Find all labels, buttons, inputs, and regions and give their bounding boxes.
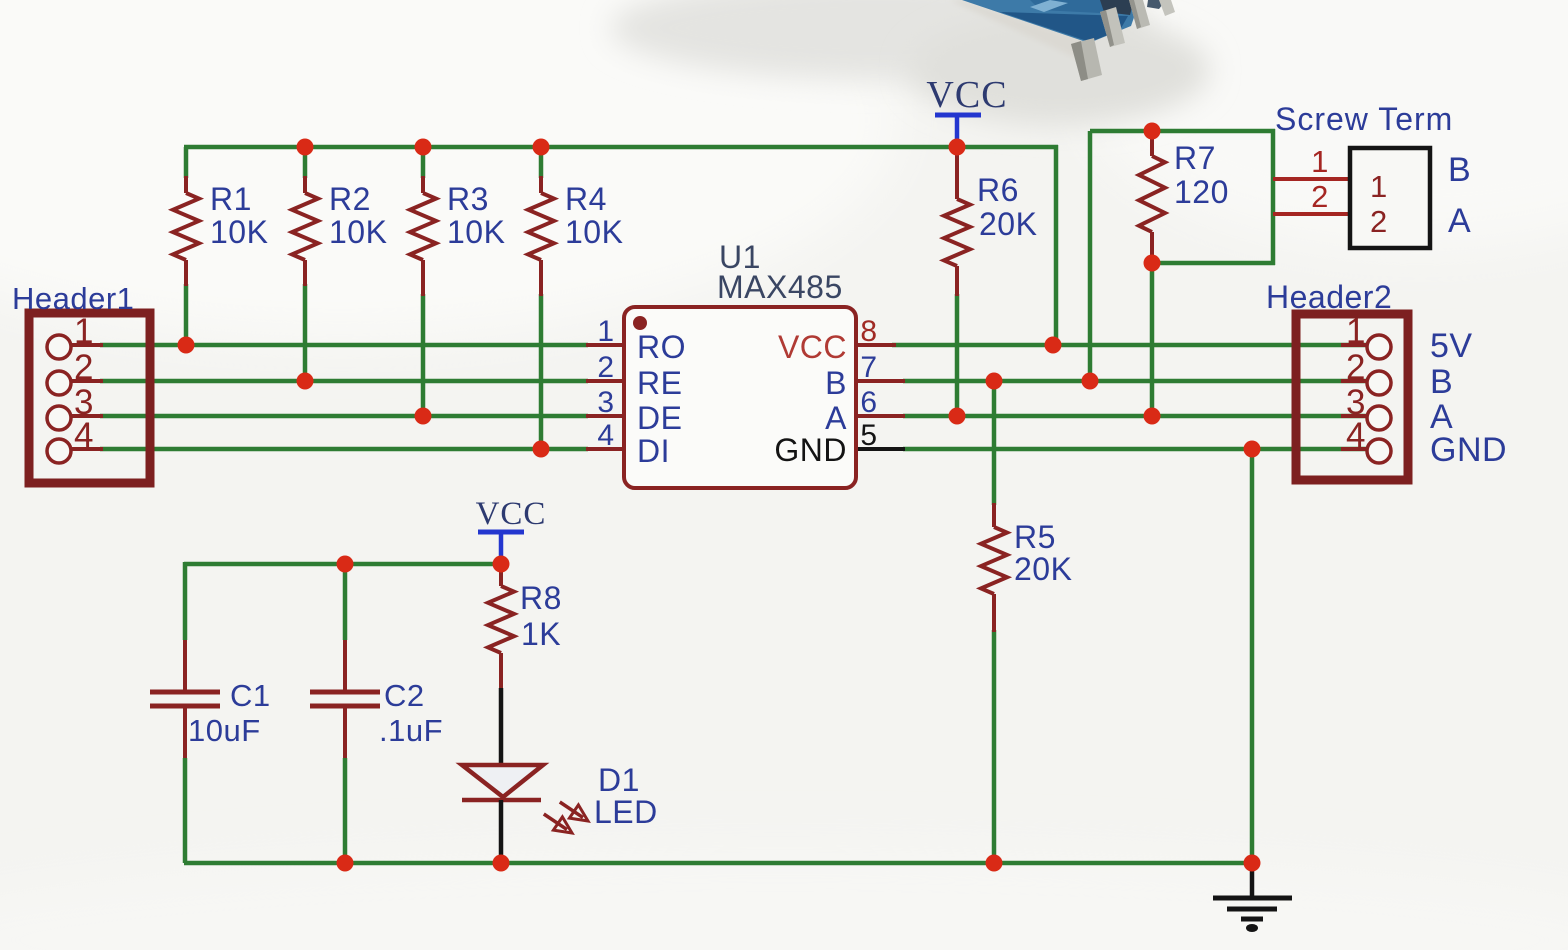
svg-text:2: 2	[1311, 179, 1329, 214]
svg-text:1: 1	[1370, 169, 1388, 204]
screw terminal inside pin number 1	[1370, 169, 1388, 204]
U1 pin 6 name A	[825, 400, 847, 436]
svg-text:R6: R6	[977, 172, 1019, 208]
U1 pin number 4	[597, 419, 614, 452]
label R7 value	[1174, 140, 1229, 210]
junction node J3 at (541,147)	[533, 139, 550, 156]
junction node J16 at (1252,449)	[1244, 441, 1261, 458]
U1 pin number 3	[597, 386, 614, 419]
capacitor C2	[310, 640, 380, 758]
wire: U1 pin8 to Header2 pin1 (5V net)	[892, 343, 1367, 348]
svg-text:DI: DI	[637, 433, 670, 469]
wire: R3 branch vertical	[421, 147, 426, 416]
label B (Header2)	[1430, 363, 1453, 401]
svg-text:10K: 10K	[329, 214, 387, 250]
wire: Header1 pin1 stub	[71, 343, 103, 347]
svg-text:1K: 1K	[521, 616, 561, 652]
svg-text:R3: R3	[447, 181, 489, 217]
Header2 pin numbers 1-4	[1346, 312, 1366, 455]
label U1	[719, 239, 761, 275]
svg-text:D1: D1	[598, 762, 640, 798]
wire: U1 pin3 stub	[586, 414, 624, 418]
junction node J1 at (305,147)	[297, 139, 314, 156]
connector Header2	[1296, 314, 1408, 480]
svg-text:4: 4	[1346, 416, 1366, 455]
wire: bottom ground rail	[184, 861, 1254, 866]
junction node J10 at (994,381)	[986, 373, 1003, 390]
label C2 value	[379, 678, 443, 748]
svg-text:.1uF: .1uF	[379, 713, 443, 748]
resistor R8	[488, 566, 514, 690]
svg-text:C1: C1	[230, 678, 271, 713]
wire: drop from top rail to U1 pin 8 net	[1054, 145, 1059, 345]
capacitor C1	[150, 640, 220, 758]
U1 pin number 6	[860, 386, 877, 419]
svg-text:1: 1	[74, 312, 94, 351]
wire: LED cathode to ground rail (black)	[499, 800, 504, 863]
op-amp U1 MAX485 body	[624, 307, 856, 488]
wire: U1 pin6 to Header2 pin3 (A net)	[903, 414, 1367, 419]
svg-text:7: 7	[860, 351, 877, 384]
U1 pin 3 name DE	[637, 400, 682, 436]
wire: U1 pin7 stub	[856, 379, 905, 383]
U1 pin 1 name RO	[637, 329, 686, 365]
svg-text:MAX485: MAX485	[717, 269, 843, 305]
wire: U1 pin5 to Header2 pin4 (GND net)	[903, 447, 1367, 452]
ground symbol	[1213, 863, 1292, 932]
label VCC (top)	[926, 74, 1007, 116]
svg-text:B: B	[1430, 363, 1453, 401]
wire: Header1 pin1 to U1 RO	[100, 343, 588, 348]
svg-text:6: 6	[860, 386, 877, 419]
svg-text:VCC: VCC	[778, 329, 847, 365]
svg-text:4: 4	[74, 416, 94, 455]
junction node J9 at (1053,345)	[1045, 337, 1062, 354]
U1 pin 8 name VCC	[778, 329, 847, 365]
wire: screw terminal pin1 lead	[1273, 177, 1350, 181]
label MAX485	[717, 269, 843, 305]
connector Header1	[29, 313, 150, 483]
label Screw Term	[1275, 101, 1453, 137]
junction node J2 at (423,147)	[415, 139, 432, 156]
power symbol VCC (bottom)	[478, 532, 524, 564]
svg-text:1: 1	[1346, 312, 1366, 351]
wire: R8 to LED (black)	[499, 688, 504, 765]
resistor R1	[173, 176, 199, 286]
wire: screw terminal pin2 lead	[1273, 212, 1350, 216]
svg-text:10K: 10K	[447, 214, 505, 250]
photo: blue PCB module fragment (top right)	[610, 0, 1210, 125]
wire: Header1 pin2 stub	[71, 379, 103, 383]
label R4 value	[565, 181, 623, 250]
junction node J18 at (501,564)	[493, 556, 510, 573]
junction node J14 at (1152,131)	[1144, 123, 1161, 140]
wire: Header2 pin3 stub	[1341, 414, 1367, 418]
LED D1	[462, 765, 588, 833]
resistor R6	[944, 151, 970, 296]
svg-text:10uF: 10uF	[188, 713, 261, 748]
U1 pin number 5	[860, 419, 877, 452]
junction node J15 at (1152,263)	[1144, 255, 1161, 272]
junction node J17 at (345,564)	[337, 556, 354, 573]
svg-text:Screw Term: Screw Term	[1275, 101, 1453, 137]
wire: U1 pin1 stub	[586, 343, 624, 347]
label A (screw term)	[1448, 202, 1471, 240]
svg-text:RO: RO	[637, 329, 686, 365]
svg-text:5: 5	[860, 419, 877, 452]
label A (Header2)	[1430, 398, 1453, 436]
svg-text:R4: R4	[565, 181, 607, 217]
junction node J22 at (1252,863)	[1244, 855, 1261, 872]
screw terminal wire label 2	[1311, 179, 1329, 214]
label R6 value	[977, 172, 1037, 242]
svg-text:GND: GND	[774, 432, 847, 468]
svg-text:A: A	[825, 400, 847, 436]
junction node J7 at (423,416)	[415, 408, 432, 425]
wire: Header1 pin3 stub	[71, 414, 103, 418]
svg-text:8: 8	[860, 315, 877, 348]
resistor R2	[292, 176, 318, 286]
U1 pin 4 name DI	[637, 433, 670, 469]
wire: C1 branch vertical	[183, 562, 188, 863]
resistor R3	[410, 176, 436, 296]
connector Screw Term body	[1350, 148, 1430, 248]
svg-text:10K: 10K	[565, 214, 623, 250]
wire: R2 branch vertical	[303, 147, 308, 381]
wire: U1 pin5 stub (GND, black)	[856, 447, 905, 451]
Header1 pin numbers 1-4	[74, 312, 94, 455]
wire: U1 pin6 stub	[856, 414, 905, 418]
svg-text:VCC: VCC	[926, 74, 1007, 116]
label R3 value	[447, 181, 505, 250]
svg-text:Header2: Header2	[1266, 279, 1392, 315]
wire: U1 pin2 stub	[586, 379, 624, 383]
svg-text:B: B	[1448, 151, 1471, 189]
svg-text:R2: R2	[329, 181, 371, 217]
svg-text:1: 1	[1311, 144, 1329, 179]
wire: top VCC rail	[184, 145, 1058, 150]
junction node J12 at (957,416)	[949, 408, 966, 425]
wire: R7 loop top	[1090, 129, 1275, 134]
U1 pin 2 name RE	[637, 365, 682, 401]
svg-text:R7: R7	[1174, 140, 1216, 176]
svg-text:20K: 20K	[1014, 551, 1072, 587]
label R5 value	[1014, 519, 1072, 587]
svg-text:5V: 5V	[1430, 327, 1473, 365]
svg-text:C2: C2	[384, 678, 425, 713]
svg-text:1: 1	[597, 315, 614, 348]
U1 pin number 8	[860, 315, 877, 348]
resistor R4	[528, 176, 554, 296]
wire: Header1 pin4 stub	[71, 447, 103, 451]
U1 pin number 2	[597, 351, 614, 384]
label Header1	[12, 281, 134, 316]
junction node J21 at (994,863)	[986, 855, 1003, 872]
svg-text:2: 2	[597, 351, 614, 384]
svg-text:4: 4	[597, 419, 614, 452]
U1 pin number 1	[597, 315, 614, 348]
svg-text:2: 2	[1346, 348, 1366, 387]
junction node J11 at (1090,381)	[1082, 373, 1099, 390]
wire: Header2 pin2 stub	[1341, 379, 1367, 383]
label R8 value	[520, 580, 562, 652]
U1 pin number 7	[860, 351, 877, 384]
wire: R1 branch vertical	[184, 147, 189, 345]
wire: U1 pin8 stub	[856, 343, 896, 347]
wire: R7 junction drop to A net	[1150, 263, 1155, 416]
label VCC (bottom)	[476, 496, 547, 532]
wire: R5 upper segment from B net	[992, 381, 997, 505]
junction node J5 at (186,345)	[178, 337, 195, 354]
junction node J19 at (345,863)	[337, 855, 354, 872]
wire: R6 lower lead to A net	[955, 294, 960, 416]
label GND (Header2)	[1430, 431, 1507, 469]
svg-text:2: 2	[74, 348, 94, 387]
wire: C2 branch vertical	[343, 564, 348, 863]
svg-text:DE: DE	[637, 400, 682, 436]
wire: Header1 pin4 to U1 DI	[100, 447, 588, 452]
label C1 value	[188, 678, 271, 748]
wire: bottom VCC feed	[184, 562, 501, 567]
wire: R7 loop right vertical	[1271, 129, 1276, 265]
U1 pin 5 name GND	[774, 432, 847, 468]
junction node J8 at (541,449)	[533, 441, 550, 458]
screw terminal inside pin number 2	[1370, 204, 1388, 239]
wire: Header1 pin2 to U1 RE	[100, 379, 588, 384]
junction node J6 at (305,381)	[297, 373, 314, 390]
svg-text:Header1: Header1	[12, 281, 134, 316]
label R1 value	[210, 181, 268, 250]
svg-text:R1: R1	[210, 181, 252, 217]
wire: Header2 pin4 stub	[1341, 447, 1367, 451]
wire: R5 lower segment to ground rail	[992, 630, 997, 863]
U1 pin 7 name B	[825, 365, 847, 401]
svg-text:A: A	[1448, 202, 1471, 240]
svg-text:R8: R8	[520, 580, 562, 616]
svg-text:RE: RE	[637, 365, 682, 401]
wire: B net riser to R7 loop	[1088, 131, 1093, 381]
svg-text:120: 120	[1174, 174, 1229, 210]
svg-text:20K: 20K	[979, 206, 1037, 242]
svg-text:VCC: VCC	[476, 496, 547, 532]
resistor R7	[1139, 133, 1165, 261]
wire: U1 pin4 stub	[586, 447, 624, 451]
label R2 value	[329, 181, 387, 250]
junction node J4 at (957,147)	[949, 139, 966, 156]
label 5V	[1430, 327, 1473, 365]
wire: U1 pin7 to Header2 pin2 (B net)	[903, 379, 1367, 384]
power symbol VCC (top)	[935, 115, 981, 147]
junction node J20 at (501,863)	[493, 855, 510, 872]
label B (screw term)	[1448, 151, 1471, 189]
svg-text:3: 3	[597, 386, 614, 419]
wire: GND net drop to ground rail	[1250, 449, 1255, 863]
wire: R7 loop bottom	[1150, 261, 1275, 266]
svg-text:R5: R5	[1014, 519, 1056, 555]
wire: Header2 pin1 stub	[1341, 343, 1367, 347]
svg-text:B: B	[825, 365, 847, 401]
junction node J13 at (1152,416)	[1144, 408, 1161, 425]
screw terminal wire label 1	[1311, 144, 1329, 179]
svg-text:2: 2	[1370, 204, 1388, 239]
svg-text:GND: GND	[1430, 431, 1507, 469]
svg-text:10K: 10K	[210, 214, 268, 250]
wire: R4 branch vertical	[539, 147, 544, 449]
svg-text:LED: LED	[594, 794, 658, 830]
resistor R5	[981, 503, 1007, 632]
label D1	[594, 762, 658, 830]
label Header2	[1266, 279, 1392, 315]
wire: Header1 pin3 to U1 DE	[100, 414, 588, 419]
